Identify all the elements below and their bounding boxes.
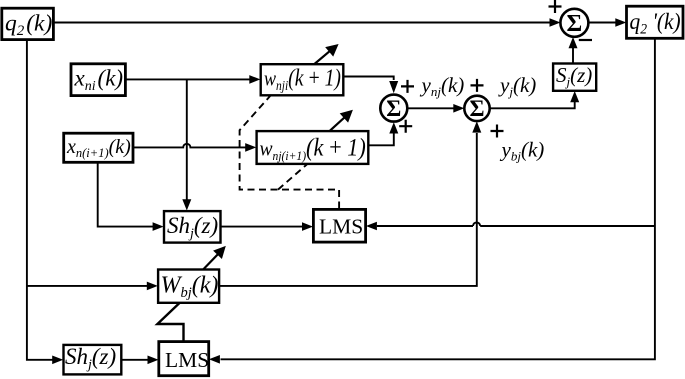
box W_bj(k): [158, 270, 219, 303]
wire: Sh_j(z) mid output to LMS mid: [221, 222, 313, 231]
wire: w_nji output into summer1 top: [344, 77, 399, 94]
wire: x_ni output to w_nji: [126, 75, 261, 84]
box LMS middle: [313, 209, 365, 242]
box w_nj(i+1)(k+1): [257, 131, 369, 164]
svg-text:Σ: Σ: [386, 96, 401, 121]
plus sign summer2 bottom right: [491, 125, 504, 138]
label y_j(k): [498, 73, 536, 99]
minus sign at top summer lower input: [579, 39, 592, 41]
box q2'(k): [627, 6, 684, 38]
wire: x_n(i+1) output to w_nj(i+1) with hop over vertical: [133, 143, 256, 152]
svg-text:wnji(k + 1): wnji(k + 1): [264, 63, 341, 93]
svg-text:Sj(z): Sj(z): [556, 63, 592, 89]
label y_nj(k): [420, 73, 465, 99]
summer 2 (Sigma): [464, 96, 489, 121]
svg-text:Σ: Σ: [567, 11, 583, 37]
adaptation arrow on w_nj(i+1): [330, 110, 353, 131]
wire: x_n(i+1) bottom down and right into Sh_j(z) left: [98, 163, 164, 231]
box LMS bottom: [159, 342, 209, 376]
summer 1 (Sigma): [380, 95, 407, 122]
plus sign summer1 top: [401, 80, 414, 93]
svg-text:Σ: Σ: [469, 96, 484, 121]
svg-text:LMS: LMS: [319, 215, 363, 239]
svg-text:q2 (k): q2 (k): [5, 10, 52, 39]
box x_ni(k): [71, 64, 125, 96]
svg-text:ybj(k): ybj(k): [500, 138, 545, 164]
adaptation arrow on w_nji: [315, 44, 339, 64]
wire: Sj(z) up to top summer (minus input): [569, 37, 578, 63]
adaptation arrow on W_bj: [203, 246, 225, 269]
wire: branch from x_ni line down into Sh_j(z) top: [182, 79, 191, 210]
wire: summer1 to summer2: [407, 104, 464, 113]
label y_bj(k): [500, 138, 545, 164]
wire: left vertical from q2(k) down and into bottom Sh_j(z): [27, 40, 63, 364]
box Sh_j(z) bottom: [64, 344, 122, 374]
wire: W_bj output right then up into summer2 bottom (ybj): [219, 121, 481, 286]
svg-text:xni (k): xni (k): [74, 65, 124, 94]
wire: dashed diagonal to w_nj(i+1) bottom: [278, 164, 307, 189]
svg-text:LMS: LMS: [165, 348, 209, 372]
box Sh_j(z) middle: [164, 211, 221, 243]
wire: yj line from summer2 up into Sj(z): [490, 91, 580, 108]
wire: zigzag from W_bj bottom to bottom LMS top: [157, 303, 183, 341]
box S_j(z): [553, 63, 596, 91]
box x_n(i+1)(k): [64, 133, 133, 162]
plus sign summer1 bottom: [399, 120, 412, 133]
box q2(k): [2, 8, 54, 39]
wire: top summer to q2'(k): [588, 18, 626, 27]
wire: right vertical feedback into LMS mid (with hop over ybj vertical): [366, 222, 655, 231]
wire: dashed update path from LMS mid to w_nji: [240, 96, 340, 209]
wire: left vertical branch into W_bj: [27, 282, 158, 291]
plus sign summer2 top: [471, 79, 484, 92]
wire: right vertical from q2'(k) down, bottom feedback into bottom LMS: [209, 39, 655, 364]
svg-text:ynj(k): ynj(k): [420, 73, 465, 99]
svg-text:q2 '(k): q2 '(k): [630, 8, 681, 38]
box w_nji(k+1): [261, 63, 344, 95]
wire: q2(k) output to top summer: [54, 18, 561, 27]
plus sign at top summer input: [549, 0, 562, 13]
summer top (Sigma): [560, 9, 588, 37]
wire: bottom Sh_j(z) to bottom LMS: [122, 356, 159, 365]
svg-text:yj(k): yj(k): [498, 73, 536, 99]
wire: w_nj(i+1) output into summer1 bottom: [369, 122, 399, 145]
